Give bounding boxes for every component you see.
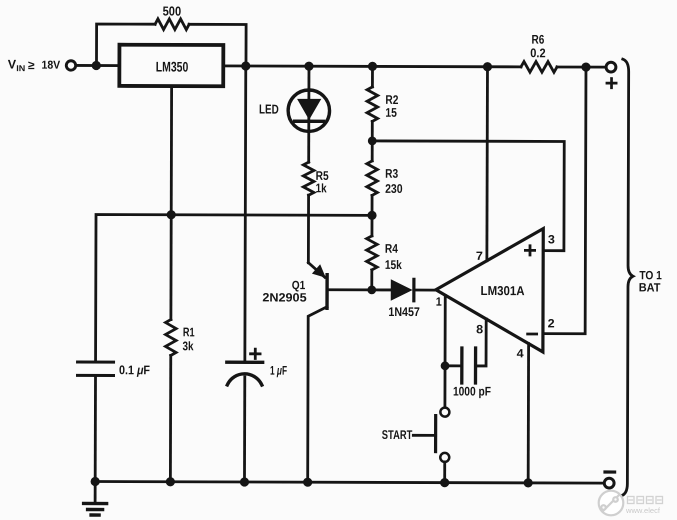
wire ground rail xyxy=(95,482,604,484)
label Q1 2N2905 xyxy=(262,278,307,305)
wire pin 8 to compensation cap xyxy=(477,319,486,366)
resistor R4 xyxy=(366,195,377,290)
svg-text:1000 pF: 1000 pF xyxy=(453,384,491,398)
label + terminal xyxy=(607,79,616,88)
svg-text:18V: 18V xyxy=(41,60,60,72)
wire 500-ohm loop left vertical xyxy=(96,24,155,66)
ground xyxy=(84,481,107,515)
svg-text:IN: IN xyxy=(16,63,25,73)
switch START pushbutton xyxy=(413,408,449,462)
resistor R3 xyxy=(367,121,378,195)
wire Q1 base to R4 junction xyxy=(328,288,371,291)
terminal battery + xyxy=(606,62,616,72)
svg-text:BAT: BAT xyxy=(639,280,661,294)
label R6 0.2 xyxy=(530,33,545,61)
resistor 500 xyxy=(155,19,189,30)
resistor R6 xyxy=(521,62,557,73)
svg-text:LED: LED xyxy=(259,102,279,117)
label + polarity of C2 xyxy=(251,349,261,358)
node ground rail junctions xyxy=(91,477,533,488)
wire 500-ohm loop right vertical xyxy=(189,24,246,66)
watermark logo xyxy=(599,491,624,516)
wire C2 to ground rail xyxy=(243,377,246,482)
svg-text:1k: 1k xyxy=(316,181,327,195)
svg-text:15k: 15k xyxy=(385,258,402,272)
label R2 15 xyxy=(385,93,398,120)
svg-text:7: 7 xyxy=(476,249,483,263)
label R5 1k xyxy=(316,169,329,195)
svg-text:0.1 μF: 0.1 μF xyxy=(119,363,150,377)
wire pin 4 to ground rail xyxy=(527,344,530,483)
wire top rail VIN to R6 xyxy=(75,65,520,66)
svg-text:R6: R6 xyxy=(532,33,545,47)
svg-text:3: 3 xyxy=(548,232,555,246)
svg-text:500: 500 xyxy=(163,4,182,19)
svg-text:4: 4 xyxy=(517,346,524,360)
wire switch to ground rail xyxy=(443,462,446,483)
wire LED branch vertical xyxy=(307,66,310,162)
svg-text:2: 2 xyxy=(548,316,555,330)
watermark text xyxy=(625,497,663,516)
node top rail junctions xyxy=(92,61,591,72)
svg-text:15: 15 xyxy=(385,106,397,120)
node feedback junction xyxy=(368,136,377,145)
label - terminal xyxy=(605,470,615,473)
wire output branch down to 1uF cap xyxy=(243,66,247,362)
resistor R2 xyxy=(367,66,378,121)
resistor R5 xyxy=(303,162,314,195)
label R4 15k xyxy=(385,242,402,272)
svg-text:3k: 3k xyxy=(182,339,193,353)
label VIN >= 18V xyxy=(8,58,61,74)
diode CR1 1N457 xyxy=(372,279,436,301)
wire adj rail horizontal xyxy=(96,215,372,363)
wire LM350 adjust pin down to adj rail xyxy=(170,87,173,215)
wire feedback R2/R3 junction to pin 3 xyxy=(372,141,564,251)
svg-text:8: 8 xyxy=(476,322,483,336)
LED D1 xyxy=(288,90,330,132)
node adj rail junctions xyxy=(167,210,377,220)
wire pin 1 junction to C3 xyxy=(445,364,460,367)
svg-text:R1: R1 xyxy=(183,325,195,339)
svg-text:R4: R4 xyxy=(385,242,398,256)
svg-text:1N457: 1N457 xyxy=(388,305,420,319)
svg-text:1: 1 xyxy=(436,295,442,309)
op-amp U2 LM301A xyxy=(436,228,544,352)
wire R6 to + terminal xyxy=(557,66,606,69)
wire C1 to ground rail xyxy=(94,375,97,481)
capacitor C3 1000pF xyxy=(462,348,476,383)
node pin1-cap junction xyxy=(441,361,450,370)
wire pin 1 down to start switch xyxy=(444,296,447,408)
label R3 230 xyxy=(385,167,403,196)
svg-text:LM301A: LM301A xyxy=(481,283,526,298)
node base-diode junction xyxy=(367,285,376,294)
wire pin 7 to top rail xyxy=(485,67,488,261)
svg-text:2N2905: 2N2905 xyxy=(262,290,307,304)
terminal battery - xyxy=(604,478,614,488)
svg-text:START: START xyxy=(382,428,413,442)
label R1 3k xyxy=(182,325,194,353)
svg-text:www.elecf: www.elecf xyxy=(625,508,660,515)
label - input xyxy=(528,333,537,336)
label + input xyxy=(525,246,534,255)
terminal VIN xyxy=(66,61,75,70)
wire adj rail to R1 xyxy=(169,215,172,320)
resistor R1 xyxy=(165,320,176,356)
svg-text:1 μF: 1 μF xyxy=(270,364,287,378)
wire R1 to ground rail xyxy=(169,355,172,481)
capacitor C2 1uF electrolytic xyxy=(227,362,263,385)
transistor Q1 2N2905 xyxy=(308,263,327,483)
svg-text:R3: R3 xyxy=(385,167,398,181)
svg-text:LM350: LM350 xyxy=(156,59,189,75)
capacitor C1 0.1uF xyxy=(78,362,114,376)
regulator U1 LM350 xyxy=(119,45,223,87)
svg-text:0.2: 0.2 xyxy=(530,46,545,60)
svg-text:≥: ≥ xyxy=(28,58,35,72)
wire pin 2 to battery + sense xyxy=(543,67,586,334)
svg-text:230: 230 xyxy=(385,182,403,196)
brace TO 1 BAT xyxy=(621,59,633,496)
wire R5 to Q1 emitter xyxy=(307,195,310,262)
label TO 1 BAT xyxy=(639,268,662,294)
